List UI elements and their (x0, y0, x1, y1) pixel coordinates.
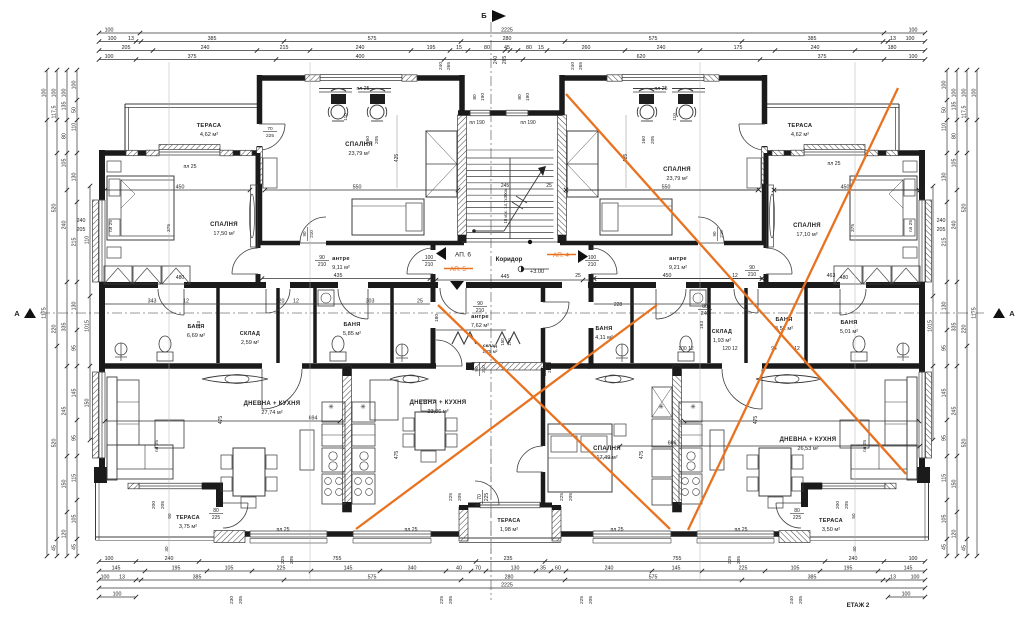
svg-text:225: 225 (439, 596, 445, 604)
svg-text:375: 375 (188, 54, 197, 60)
vertical thin reference line right wing (854, 62, 856, 560)
svg-text:70: 70 (267, 126, 273, 132)
terrace rot dims left (151, 501, 172, 519)
left wing geometry (93, 75, 467, 544)
svg-text:ТЕРАСА: ТЕРАСА (788, 123, 813, 129)
svg-text:200: 200 (151, 501, 157, 509)
svg-text:225: 225 (739, 565, 748, 571)
svg-text:3,75 м²: 3,75 м² (179, 524, 197, 530)
svg-text:40: 40 (456, 565, 462, 571)
svg-text:240: 240 (951, 221, 957, 230)
svg-text:240: 240 (937, 218, 946, 224)
svg-text:215: 215 (941, 238, 947, 247)
svg-text:23,79 м²: 23,79 м² (666, 176, 687, 182)
svg-text:265: 265 (578, 62, 584, 70)
right 480 dim (840, 275, 849, 281)
svg-text:520: 520 (51, 439, 57, 448)
svg-text:ТЕРАСА: ТЕРАСА (176, 515, 200, 521)
bottom rot pairs 1 (448, 493, 463, 501)
svg-text:755: 755 (673, 556, 682, 562)
corridor entry door arrow (450, 281, 464, 290)
rot dim pl25 left wall (154, 440, 160, 452)
door fraction 70/225 terrace center (477, 490, 490, 504)
label pl25 bottom 3 (610, 527, 623, 533)
bottom exterior wall segments (245, 531, 250, 537)
svg-text:240: 240 (493, 56, 499, 65)
right dimension col 1 (971, 68, 979, 558)
svg-text:100: 100 (425, 255, 434, 261)
svg-text:9,21 м²: 9,21 м² (669, 265, 687, 271)
svg-text:120: 120 (276, 298, 285, 304)
rot dim 180 antre5 (434, 314, 440, 322)
AP5 dining table (403, 400, 457, 462)
bottom window 1 (250, 531, 327, 537)
svg-text:230: 230 (229, 596, 235, 604)
svg-text:СКЛАД: СКЛАД (240, 331, 260, 337)
svg-text:100: 100 (108, 36, 117, 42)
bedroom east wall / antre west (256, 153, 261, 248)
svg-text:210: 210 (481, 365, 486, 373)
svg-text:130: 130 (941, 173, 947, 182)
bedroom 7.49 north wall (545, 363, 590, 369)
svg-text:Коридор: Коридор (496, 256, 523, 263)
rot dim 475 kitchen left (394, 451, 400, 460)
svg-text:175: 175 (734, 45, 743, 51)
svg-text:ДНЕВНА + КУХНЯ: ДНЕВНА + КУХНЯ (410, 400, 467, 406)
svg-text:110: 110 (343, 113, 349, 121)
bedroom 7.49 door arc (517, 446, 543, 472)
left sill hatch 2 (93, 372, 99, 458)
single bed bedroom 23.79 (352, 199, 424, 235)
svg-text:520: 520 (51, 204, 57, 213)
main band wall y285 (99, 282, 158, 288)
wardrobe bedroom 23.79 (426, 131, 457, 197)
rot pl25 right wall window (908, 220, 914, 232)
svg-text:1,93 м²: 1,93 м² (713, 338, 731, 344)
svg-text:80: 80 (951, 133, 957, 139)
svg-text:145: 145 (71, 389, 77, 398)
svg-text:1015: 1015 (927, 320, 933, 332)
svg-text:80: 80 (484, 45, 490, 51)
svg-text:145: 145 (112, 565, 121, 571)
stove symbol AP6 (328, 403, 334, 411)
left sill hatch 1 (93, 200, 99, 282)
terrace 3.75 rails (95, 483, 97, 540)
right bath small dims (575, 273, 800, 352)
label pl25 terrace right (827, 161, 840, 167)
svg-text:385: 385 (193, 574, 202, 580)
svg-text:4,62 м²: 4,62 м² (200, 132, 218, 138)
svg-text:385: 385 (208, 36, 217, 42)
svg-text:12: 12 (183, 298, 189, 304)
svg-text:265: 265 (446, 62, 452, 70)
svg-text:105: 105 (951, 159, 957, 168)
door bath 6.69 (183, 289, 185, 315)
rot dim 90/210 kitchen pass right (540, 362, 552, 376)
svg-text:205: 205 (798, 596, 804, 604)
central terrace top window (468, 502, 552, 508)
svg-text:90: 90 (749, 265, 755, 271)
label pl25 terrace left (183, 164, 196, 170)
label pl25 bottom 2 (404, 527, 417, 533)
svg-text:пл 25: пл 25 (862, 440, 868, 452)
upper block top wall (257, 75, 320, 81)
svg-text:210: 210 (309, 230, 314, 238)
svg-text:АП. 4: АП. 4 (553, 252, 569, 259)
svg-text:80: 80 (702, 304, 708, 310)
svg-text:45: 45 (504, 45, 510, 51)
bed bedroom 7.49 (548, 424, 612, 492)
svg-text:100: 100 (906, 36, 915, 42)
right wing geometry (mirrored) (558, 75, 932, 544)
svg-text:130: 130 (71, 173, 77, 182)
svg-text:210: 210 (476, 308, 485, 314)
svg-text:385: 385 (808, 574, 817, 580)
svg-text:90: 90 (474, 366, 479, 372)
svg-text:13: 13 (128, 36, 134, 42)
room label terrace 4.62 right (788, 123, 813, 138)
level mark corridor (518, 266, 549, 272)
door fraction 90/210 antre left (315, 255, 329, 268)
vanity oval 2 (390, 376, 428, 383)
terrace 3.75 window pier (128, 483, 139, 489)
svg-text:575: 575 (368, 574, 377, 580)
under-window rot pair right (727, 556, 742, 564)
corridor door down arc (440, 288, 466, 314)
top dimension row 3 (97, 45, 927, 53)
svg-text:135: 135 (951, 102, 957, 111)
stair window B (506, 110, 528, 116)
top center rot dims 2 (438, 62, 584, 70)
AP6 label (436, 247, 471, 260)
svg-text:228: 228 (614, 302, 623, 308)
stair window labels (469, 120, 536, 126)
left corner notch block (94, 467, 107, 483)
central terrace door arc (475, 481, 499, 505)
svg-text:400: 400 (356, 54, 365, 60)
svg-text:150: 150 (84, 399, 90, 408)
hatch piers top window (305, 75, 320, 81)
label pl25 bottom 4 (734, 527, 747, 533)
svg-text:100: 100 (911, 574, 920, 580)
svg-text:БАНЯ: БАНЯ (343, 322, 360, 328)
svg-text:6,69 м²: 6,69 м² (187, 333, 205, 339)
svg-text:130: 130 (71, 302, 77, 311)
svg-text:ЕТАЖ 2: ЕТАЖ 2 (847, 602, 870, 609)
label pl25 top right (654, 86, 667, 92)
svg-text:475: 475 (753, 416, 759, 425)
svg-text:СПАЛНЯ: СПАЛНЯ (663, 167, 691, 173)
bottom dimension row 2 (97, 565, 927, 573)
svg-text:210: 210 (588, 262, 597, 268)
svg-text:225: 225 (579, 596, 585, 604)
bed double bedroom 17.50 (107, 176, 174, 240)
svg-text:пл 190: пл 190 (520, 120, 536, 126)
svg-text:СКЛАД: СКЛАД (712, 329, 732, 335)
top dimension row 2 (97, 36, 927, 44)
svg-text:100: 100 (971, 89, 977, 98)
svg-text:480: 480 (176, 275, 185, 281)
svg-text:пл 25: пл 25 (276, 527, 289, 533)
stair window rot dims (472, 93, 531, 101)
svg-text:80: 80 (472, 94, 478, 100)
svg-text:205: 205 (568, 493, 574, 501)
svg-text:26,53 м²: 26,53 м² (797, 446, 818, 452)
svg-text:100: 100 (61, 89, 67, 98)
orange label AP5 struck (444, 266, 473, 273)
left dimension col 3 (61, 68, 69, 558)
svg-text:пл 25: пл 25 (654, 86, 667, 92)
antre5 west door arc (436, 340, 462, 366)
door fraction 80/225 terrace left (209, 508, 223, 521)
svg-text:450: 450 (841, 184, 850, 190)
svg-text:13: 13 (890, 36, 896, 42)
kitchen column AP6 (322, 402, 345, 422)
svg-text:70: 70 (477, 494, 483, 500)
orange X stroke B (688, 88, 898, 530)
svg-text:160: 160 (641, 136, 647, 144)
svg-text:2225: 2225 (501, 27, 513, 33)
svg-text:105: 105 (71, 515, 77, 524)
svg-text:180: 180 (888, 45, 897, 51)
door fraction 80/240 sklad right (698, 304, 712, 317)
svg-text:30: 30 (852, 546, 857, 552)
svg-text:550: 550 (353, 184, 362, 190)
stair up arrow (472, 166, 546, 233)
svg-text:1175: 1175 (971, 307, 977, 318)
svg-text:45: 45 (961, 545, 967, 551)
bedside table bedroom 17.50 (107, 161, 121, 172)
svg-text:13: 13 (119, 574, 125, 580)
terrace 4.62 railing (125, 103, 259, 105)
svg-text:25: 25 (546, 183, 552, 189)
top wall hatch pier b (240, 150, 252, 155)
svg-text:100: 100 (105, 556, 114, 562)
svg-text:210: 210 (719, 230, 724, 238)
label pl25 top left (356, 86, 369, 92)
door fraction 100/210 left (422, 255, 436, 268)
svg-text:225: 225 (266, 133, 274, 139)
top wall hatch piers at window (146, 150, 159, 156)
svg-text:пл 25: пл 25 (108, 220, 114, 232)
svg-text:ДНЕВНА + КУХНЯ: ДНЕВНА + КУХНЯ (244, 401, 301, 407)
svg-text:205: 205 (650, 136, 656, 144)
svg-text:115: 115 (71, 474, 77, 482)
svg-text:135: 135 (61, 102, 67, 111)
stove symbol right 1 (658, 403, 664, 411)
svg-text:100: 100 (909, 54, 918, 60)
central terrace bottom slab (459, 538, 561, 543)
rot dim 375 bed left (166, 224, 172, 232)
svg-text:130: 130 (511, 565, 520, 571)
rot frac 90/210 bedroom door left (302, 227, 314, 241)
svg-text:100: 100 (113, 591, 122, 597)
svg-text:100: 100 (909, 27, 918, 33)
door fraction 80/225 terrace right (790, 508, 804, 521)
left dimension col 4 (71, 68, 79, 558)
svg-text:50: 50 (941, 107, 947, 113)
svg-text:117,5: 117,5 (51, 106, 57, 119)
svg-text:БАНЯ: БАНЯ (840, 320, 857, 326)
room label living 27.74 (244, 401, 301, 416)
svg-text:755: 755 (333, 556, 342, 562)
svg-text:120 12: 120 12 (722, 346, 738, 352)
svg-text:225: 225 (448, 493, 454, 501)
door living wide (261, 369, 263, 409)
svg-text:90: 90 (302, 231, 307, 237)
svg-text:23,79 м²: 23,79 м² (348, 151, 369, 157)
svg-text:117,5: 117,5 (961, 106, 967, 119)
svg-text:375: 375 (818, 54, 827, 60)
svg-text:17,50 м²: 17,50 м² (213, 231, 234, 237)
bottom window 2 (353, 531, 431, 537)
left wall dim pair 240/205 (70, 218, 92, 233)
corridor level +3.00 (530, 269, 544, 275)
svg-text:225: 225 (212, 515, 221, 521)
bedside bedroom 7.49 (614, 424, 626, 436)
svg-text:95: 95 (941, 345, 947, 351)
svg-text:303: 303 (366, 298, 375, 304)
svg-text:145: 145 (344, 565, 353, 571)
svg-text:15: 15 (538, 45, 544, 51)
bottom corner 100 labels (97, 591, 927, 599)
svg-text:240: 240 (811, 45, 820, 51)
room label living 26.53 (780, 437, 837, 452)
door corridor AP6 (407, 273, 433, 275)
svg-text:225: 225 (727, 556, 733, 564)
AP4 arrow (578, 250, 588, 263)
top wall hatch pier a (126, 150, 138, 155)
central recessed terrace side walls (459, 505, 561, 541)
svg-text:160: 160 (365, 136, 371, 144)
svg-text:50: 50 (851, 513, 856, 519)
svg-text:1015: 1015 (84, 320, 90, 332)
svg-text:пл 25: пл 25 (734, 527, 747, 533)
tv unit (300, 430, 314, 470)
dresser row bedroom 17.50 (104, 266, 132, 284)
svg-text:100: 100 (902, 591, 911, 597)
top center small rotated dims (493, 56, 508, 65)
svg-text:225: 225 (277, 565, 286, 571)
svg-text:12: 12 (293, 298, 299, 304)
left exterior wall (99, 150, 105, 200)
svg-text:245: 245 (61, 407, 67, 416)
room label bath 3.52 (775, 317, 793, 332)
svg-text:120: 120 (61, 530, 67, 539)
svg-text:445: 445 (501, 274, 510, 280)
interior dim living (105, 420, 340, 422)
shelf at west wall bedroom 23.79 (263, 158, 277, 188)
svg-text:190: 190 (525, 93, 531, 101)
svg-text:575: 575 (368, 36, 377, 42)
antre5 closet zigzag 2 (496, 332, 520, 344)
svg-text:190: 190 (480, 93, 486, 101)
svg-text:520: 520 (961, 204, 967, 213)
bottom rot pairs 4 (439, 596, 454, 604)
svg-text:375: 375 (166, 224, 172, 232)
bath partition 1 (216, 288, 220, 363)
svg-text:100: 100 (105, 27, 114, 33)
svg-text:450: 450 (663, 273, 672, 279)
svg-text:антре: антре (332, 256, 350, 262)
svg-text:145: 145 (941, 389, 947, 398)
svg-text:100: 100 (101, 574, 110, 580)
svg-text:110: 110 (672, 113, 678, 121)
svg-text:180: 180 (434, 314, 440, 322)
svg-text:145: 145 (672, 565, 681, 571)
svg-text:100: 100 (105, 54, 114, 60)
vertical thin reference line center-right (699, 62, 701, 580)
antre5 closet zigzag 1 (452, 332, 476, 344)
svg-text:7,62 м²: 7,62 м² (471, 323, 489, 329)
svg-text:100: 100 (951, 89, 957, 98)
bottom rot pairs 3 (229, 596, 244, 604)
right dimension col 3 (951, 68, 959, 558)
door terrace 3.75 (223, 502, 248, 504)
svg-text:150: 150 (61, 480, 67, 489)
kitchen middle wall hatched (343, 366, 352, 512)
rot pl25 left wall window (108, 220, 114, 232)
svg-text:205: 205 (160, 501, 166, 509)
door fraction 90/210 right (745, 265, 759, 278)
left dimension col 1 (41, 68, 49, 558)
bottom window sill strips (250, 539, 327, 544)
svg-text:205: 205 (238, 596, 244, 604)
svg-text:пл 25: пл 25 (154, 440, 160, 452)
stair window A (470, 110, 490, 116)
svg-text:1175: 1175 (41, 307, 47, 318)
svg-text:450: 450 (176, 184, 185, 190)
svg-text:90: 90 (712, 231, 717, 237)
vertical thin reference line left (168, 62, 170, 560)
rot frac 90/210 bedroom door right (712, 227, 724, 241)
door antre to bedroom23 (300, 242, 326, 244)
svg-text:45: 45 (71, 544, 77, 550)
svg-text:пл 25: пл 25 (183, 164, 196, 170)
dining table 6 (233, 448, 265, 496)
left 480 dim (176, 275, 185, 281)
svg-text:+3.00: +3.00 (530, 269, 544, 275)
svg-text:ТЕРАСА: ТЕРАСА (197, 123, 222, 129)
rot dims window 160/205 left (365, 136, 380, 144)
right dimension col 4 (941, 68, 949, 558)
svg-text:А: А (14, 309, 20, 318)
svg-text:245: 245 (951, 407, 957, 416)
svg-text:240: 240 (438, 62, 444, 70)
svg-text:4,62 м²: 4,62 м² (791, 132, 809, 138)
room label bath 4.11 (595, 326, 613, 341)
svg-text:475: 475 (394, 451, 400, 460)
svg-text:100: 100 (961, 89, 967, 98)
door bath 5.85 (367, 289, 369, 319)
svg-text:100: 100 (941, 81, 947, 90)
svg-text:27,74 м²: 27,74 м² (261, 410, 282, 416)
svg-text:193: 193 (699, 321, 705, 329)
svg-text:550: 550 (662, 184, 671, 190)
room label bath 6.69 (187, 324, 205, 339)
svg-text:145: 145 (904, 565, 913, 571)
svg-text:575: 575 (649, 574, 658, 580)
rot dim 110 left (343, 113, 349, 121)
svg-text:210: 210 (748, 272, 757, 278)
svg-text:✳: ✳ (658, 403, 664, 411)
corridor west wall (431, 243, 436, 250)
bath partition 4 (390, 288, 394, 363)
room label bath 5.01 (840, 320, 858, 335)
svg-text:90: 90 (477, 301, 483, 307)
svg-text:335: 335 (951, 323, 957, 332)
svg-text:1,98 м²: 1,98 м² (500, 527, 518, 533)
